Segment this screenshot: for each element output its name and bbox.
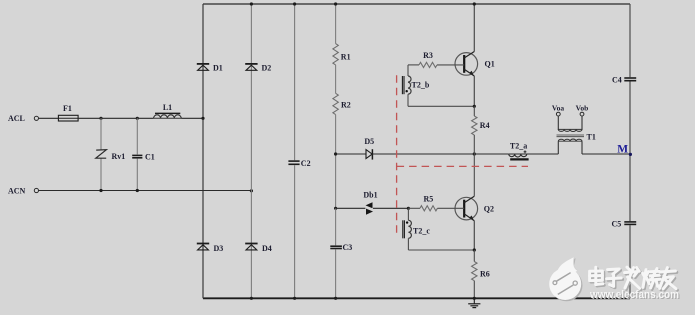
- node emitter R4 junction: [473, 105, 476, 108]
- wire emitter to R6: [473, 250, 475, 262]
- wire ACN to bridge: [39, 190, 252, 192]
- T2_b core bars: [401, 76, 403, 94]
- watermark text shao: [644, 270, 662, 289]
- node top rail Q1 collector: [473, 2, 476, 5]
- node bridge ACN junction: [250, 189, 253, 192]
- T1 core: [557, 134, 585, 136]
- wire T2_b lower lead: [407, 94, 409, 106]
- winding T2_a: [509, 154, 527, 157]
- wire emitter to R4: [473, 106, 475, 116]
- node bottom rail D4: [250, 297, 253, 300]
- wire R1 to R2: [335, 65, 337, 93]
- svg-text:D3: D3: [214, 244, 224, 253]
- svg-text:C2: C2: [301, 159, 311, 168]
- capacitor C2: [288, 160, 299, 162]
- diode D4: [245, 243, 257, 245]
- node Vob terminal: [580, 112, 584, 116]
- svg-text:Vob: Vob: [576, 104, 589, 113]
- capacitor C4: [624, 77, 636, 79]
- wire R4 to main node: [473, 135, 475, 154]
- wire node to R5: [408, 207, 420, 209]
- wire C2 column: [294, 4, 296, 160]
- wire Voa lead: [557, 116, 559, 130]
- svg-text:ACL: ACL: [8, 114, 25, 123]
- wire Db1 to T2_c node: [373, 207, 408, 209]
- wire main node to Q2 collector: [473, 154, 475, 196]
- svg-text:D4: D4: [262, 244, 272, 253]
- T2_a core bar: [510, 158, 528, 160]
- svg-text:R5: R5: [424, 194, 434, 203]
- wire T2_a to T1: [527, 153, 559, 155]
- wire R column top: [335, 4, 337, 44]
- capacitor C1: [132, 154, 142, 156]
- svg-text:T2_b: T2_b: [412, 80, 430, 89]
- wire C3 down: [335, 249, 337, 298]
- svg-text:T1: T1: [587, 133, 596, 142]
- diode D3: [197, 243, 209, 245]
- node Rv1 bottom: [99, 189, 102, 192]
- wire top rail: [203, 3, 630, 5]
- node ACN terminal: [34, 188, 38, 192]
- winding T2_c: [408, 220, 411, 238]
- wire left rail: [202, 4, 204, 298]
- T1 primary winding: [558, 129, 582, 131]
- inductor L1: [155, 112, 180, 114]
- watermark text dian: [591, 269, 604, 286]
- wire bottom rail: [203, 297, 630, 299]
- fuse F1: [58, 115, 78, 121]
- transistor Q2: [455, 197, 478, 220]
- svg-text:L1: L1: [163, 103, 172, 112]
- wire T2_c upper lead: [407, 208, 409, 220]
- wire T2_b upper lead: [407, 65, 409, 76]
- wire T2_c to emitter: [408, 249, 474, 251]
- node emitter R6 junction: [473, 248, 476, 251]
- svg-text:Q2: Q2: [484, 204, 494, 213]
- T1 secondary winding: [558, 139, 582, 141]
- diode D2: [245, 63, 257, 65]
- feedback dashed line vertical: [396, 75, 398, 234]
- svg-text:C1: C1: [145, 153, 155, 162]
- T2_c core bars: [402, 220, 404, 238]
- resistor R3: [419, 62, 437, 67]
- svg-text:ACN: ACN: [8, 186, 26, 195]
- svg-text:D2: D2: [262, 64, 272, 73]
- T2_c polarity dot: [406, 221, 408, 223]
- node C1 bottom: [136, 189, 139, 192]
- winding T2_b: [408, 76, 411, 94]
- watermark text zi: [608, 270, 623, 287]
- wire T2_b to emitter: [408, 105, 474, 107]
- svg-text:T2_a: T2_a: [510, 141, 527, 150]
- wire R5 to Q2 base: [437, 207, 464, 209]
- node T2_c junction: [407, 207, 410, 210]
- node R4/Q2 junction: [473, 152, 476, 155]
- wire L1 to bridge: [181, 117, 203, 119]
- node bottom rail C3: [334, 297, 337, 300]
- ground: [473, 298, 475, 303]
- transistor Q1: [455, 53, 478, 76]
- svg-text:M: M: [617, 144, 628, 156]
- node Rv1 junction: [99, 117, 102, 120]
- wire R junction to D5: [336, 153, 366, 155]
- node bottom rail C2: [293, 297, 296, 300]
- capacitor C3: [330, 245, 342, 247]
- node bottom rail ground: [473, 297, 476, 300]
- svg-text:Q1: Q1: [485, 60, 495, 69]
- resistor R6: [472, 262, 477, 281]
- svg-text:F1: F1: [63, 104, 72, 113]
- svg-text:D1: D1: [213, 64, 223, 73]
- T2_b polarity dot: [406, 90, 408, 92]
- svg-text:C5: C5: [612, 219, 622, 228]
- wire R junction to Db1: [336, 207, 366, 209]
- svg-text:Voa: Voa: [552, 104, 564, 113]
- wire fuse to node: [78, 117, 101, 119]
- watermark text you: [661, 269, 677, 290]
- wire D5 to Q column: [372, 153, 474, 155]
- wire C1 node to L1: [137, 117, 153, 119]
- node top rail D2: [250, 2, 253, 5]
- node top rail R1: [334, 2, 337, 5]
- svg-text:C3: C3: [343, 243, 353, 252]
- svg-text:R1: R1: [341, 53, 351, 62]
- svg-text:R4: R4: [480, 121, 490, 130]
- wire C1 column: [136, 118, 138, 154]
- resistor R2: [333, 93, 338, 114]
- capacitor C5: [624, 221, 636, 223]
- node Db1 wire junction: [334, 207, 337, 210]
- node ACL terminal: [34, 116, 38, 120]
- wire T1 to M: [582, 153, 630, 155]
- wire column to C3: [335, 208, 337, 245]
- node main wire junction: [334, 152, 337, 155]
- T2_a polarity mark: [524, 151, 527, 153]
- diode D1: [197, 63, 209, 65]
- diode D5: [366, 150, 372, 159]
- svg-text:www.elecfans.com: www.elecfans.com: [589, 289, 679, 301]
- svg-text:R3: R3: [423, 51, 433, 60]
- wire R3 to Q1 base: [437, 64, 464, 66]
- feedback dashed line horizontal: [397, 165, 528, 167]
- diac Db1: [366, 202, 373, 208]
- varistor Rv1: [96, 150, 107, 159]
- node bridge ACL junction: [201, 117, 204, 120]
- watermark logo: [551, 258, 583, 301]
- wire T1 secondary right leg: [581, 141, 583, 154]
- svg-text:Db1: Db1: [363, 191, 377, 200]
- wire to C1 node: [101, 117, 137, 119]
- svg-text:Rv1: Rv1: [112, 152, 126, 161]
- wire R2 down: [335, 115, 337, 209]
- watermark text fa: [626, 269, 641, 290]
- wire Rv1 column: [100, 118, 102, 150]
- wire Vob lead: [581, 116, 583, 130]
- resistor R4: [472, 116, 477, 135]
- node C1 junction: [136, 117, 139, 120]
- wire R6 to bottom rail: [473, 281, 475, 299]
- wire T1 secondary left leg: [557, 141, 559, 154]
- svg-text:R6: R6: [480, 270, 490, 279]
- wire ACL to fuse: [39, 117, 59, 119]
- svg-text:D5: D5: [364, 137, 374, 146]
- wire T2_b top corner to R3: [408, 64, 419, 66]
- resistor R5: [420, 206, 437, 211]
- node top rail C2: [293, 2, 296, 5]
- wire D2/D4 column: [250, 4, 252, 298]
- svg-text:R2: R2: [341, 100, 351, 109]
- svg-text:C4: C4: [612, 76, 622, 85]
- resistor R1: [333, 44, 338, 65]
- wire right rail C4/C5 column: [629, 4, 631, 77]
- node Voa terminal: [556, 112, 560, 116]
- wire T2_c lower lead: [407, 238, 409, 250]
- wire to T2_a: [474, 153, 508, 155]
- svg-text:T2_c: T2_c: [413, 226, 430, 235]
